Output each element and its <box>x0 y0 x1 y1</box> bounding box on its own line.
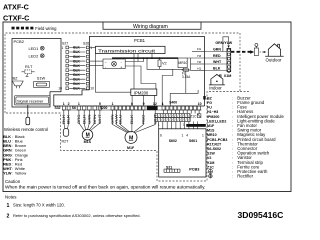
right legend <box>207 95 284 178</box>
svg-text:S6-S602: S6-S602 <box>207 147 221 151</box>
svg-text:RED: RED <box>142 114 146 124</box>
svg-text:6: 6 <box>131 102 133 106</box>
svg-text:WHT: WHT <box>213 60 222 64</box>
terminal strip X1M <box>227 48 231 71</box>
svg-text:When the main power is turned: When the main power is turned off and th… <box>5 185 206 191</box>
svg-text:Caution: Caution <box>5 179 21 184</box>
svg-text:BLU: BLU <box>118 113 122 124</box>
wire S26 to transmission circuit <box>89 47 96 49</box>
svg-text:GRN: GRN <box>88 114 92 124</box>
svg-text:BLK: BLK <box>73 68 80 72</box>
svg-text:1: 1 <box>202 134 204 138</box>
wireless remote control unit <box>26 117 30 125</box>
S27/S26 pin cells and BLK wires <box>66 46 89 91</box>
svg-text:6: 6 <box>160 134 162 138</box>
wire S27-S26 row <box>69 83 85 85</box>
wire S200 to M1F BLK <box>131 110 133 132</box>
wire fuse down <box>185 71 187 93</box>
svg-text:Rectifier: Rectifier <box>237 174 253 179</box>
S32 pin cell <box>62 106 65 110</box>
rectifier <box>103 59 125 69</box>
svg-text:BRN: BRN <box>3 144 11 148</box>
svg-text:Outdoor: Outdoor <box>266 58 282 63</box>
S400 pin cell <box>178 106 181 110</box>
wire H1 row <box>191 70 205 72</box>
fan motor M1F <box>125 131 137 143</box>
wire harness stub <box>158 122 160 129</box>
junction <box>146 57 148 59</box>
svg-text:S200: S200 <box>100 106 108 110</box>
wire harness stub <box>171 122 173 129</box>
svg-text::: : <box>232 142 233 146</box>
S27 pin cell <box>66 82 69 85</box>
svg-text:MR10: MR10 <box>178 61 187 65</box>
wire S27-S26 row <box>69 87 85 89</box>
svg-text:1: 1 <box>112 102 114 106</box>
wire S26 to rectifier ac1 <box>89 60 103 62</box>
svg-text:Signal receiver: Signal receiver <box>17 99 44 104</box>
wire S400 stub <box>190 110 192 114</box>
svg-text:BZ: BZ <box>13 75 19 80</box>
svg-text::: : <box>232 106 233 110</box>
wire harness stub <box>175 122 177 129</box>
wire S400 stub <box>178 110 180 114</box>
S6 pin cell <box>88 106 91 110</box>
svg-text:GRN: GRN <box>3 149 12 153</box>
wire transmission drop 2 <box>151 54 153 59</box>
svg-text:BLK: BLK <box>130 113 134 124</box>
wire harness stub <box>197 122 199 129</box>
svg-text:Indoor: Indoor <box>209 86 222 91</box>
S6 pin cell <box>83 106 86 110</box>
S27 pin cell <box>66 55 69 58</box>
wire S400 stub <box>163 110 165 114</box>
svg-text:Notes: Notes <box>5 194 17 199</box>
svg-text:R1T,R2T: R1T,R2T <box>207 142 222 146</box>
S200 pin cell <box>134 106 137 110</box>
wire S27-S26 row <box>69 51 85 53</box>
S6 pin cell <box>98 106 101 110</box>
svg-text:1: 1 <box>182 134 184 138</box>
wire S32-2 to R2T <box>68 110 69 129</box>
S200 pins 10-12 block <box>147 106 158 110</box>
svg-text:R2T: R2T <box>62 139 70 143</box>
svg-text::: : <box>232 129 233 133</box>
wire S400 stub <box>194 110 196 114</box>
S27 pin cell <box>66 46 69 49</box>
S200 pin cell <box>130 106 133 110</box>
svg-text::: : <box>232 170 233 174</box>
junction blob <box>203 96 205 100</box>
S27 pin cell <box>66 69 69 72</box>
svg-text:10: 10 <box>198 102 202 106</box>
S26 pin cell <box>86 64 89 67</box>
wire S200 to M1F BLU <box>120 110 130 132</box>
field wiring legend blocks <box>12 27 34 30</box>
varistor V2 <box>158 60 161 67</box>
svg-text:2: 2 <box>7 214 10 220</box>
wire S200 to M1F GRN <box>113 110 127 132</box>
svg-text:S6: S6 <box>72 106 76 110</box>
S200 pin cell <box>115 106 118 110</box>
wire transmission to IPM200 left <box>95 54 130 93</box>
svg-text:WHT: WHT <box>98 114 102 124</box>
PCB3 block <box>155 110 206 177</box>
svg-text:GRN/YLW: GRN/YLW <box>215 41 232 45</box>
S400 pin cell <box>194 106 197 110</box>
S26 pin cell <box>86 55 89 58</box>
svg-text:1: 1 <box>78 102 80 106</box>
svg-text::: : <box>12 172 13 176</box>
svg-text:PNK: PNK <box>3 158 11 162</box>
svg-text:V2: V2 <box>207 156 211 160</box>
wire rectifier to IPM200 <box>125 66 156 89</box>
protective earth symbol <box>208 169 212 173</box>
wire S400 stub <box>166 110 168 114</box>
wire harness stub <box>184 122 186 129</box>
svg-text:BLK: BLK <box>73 87 80 91</box>
svg-text:Refer to purchasing specificat: Refer to purchasing specification AS3030… <box>13 213 141 218</box>
svg-text:LED1: LED1 <box>29 46 39 51</box>
svg-text:FG: FG <box>207 101 212 105</box>
connector strip top edge <box>54 105 205 107</box>
svg-text::: : <box>12 167 13 171</box>
svg-text:~: ~ <box>105 61 107 65</box>
svg-text:Wiring diagram: Wiring diagram <box>133 24 168 30</box>
S200 pin cell <box>127 106 130 110</box>
svg-text:Size: length 70 X width 120.: Size: length 70 X width 120. <box>13 202 65 207</box>
S27 pin cell <box>66 51 69 54</box>
svg-text:BLK: BLK <box>73 46 80 50</box>
svg-text:S26: S26 <box>83 42 89 46</box>
S400 pin cell <box>186 106 189 110</box>
svg-text:RED: RED <box>3 163 11 167</box>
dashed boundary extension <box>240 92 249 94</box>
S26 pin cell <box>86 82 89 85</box>
signal receiver box <box>15 96 51 105</box>
svg-text:BLK: BLK <box>73 82 80 86</box>
svg-text:1: 1 <box>90 46 92 50</box>
S400 pin cell <box>190 106 193 110</box>
internal wires <box>89 47 206 106</box>
rectifier symbol <box>209 174 213 178</box>
svg-text:1: 1 <box>62 46 64 50</box>
outdoor terminal lug <box>255 43 258 46</box>
wire S27-S26 row <box>69 78 85 80</box>
wire S27-S26 row <box>69 56 85 58</box>
svg-text:3D095416C: 3D095416C <box>238 210 284 220</box>
svg-text:BLK: BLK <box>67 113 71 124</box>
svg-text:X1M: X1M <box>224 74 232 78</box>
dashed arrow to outdoor <box>260 51 265 53</box>
S200 pin cell <box>142 106 145 110</box>
wire S6 to M1S GRN <box>88 110 90 130</box>
svg-text:M1S: M1S <box>207 129 215 133</box>
wire S27-S26 row <box>69 69 85 71</box>
svg-text::: : <box>12 153 13 157</box>
S400 pin cell <box>182 106 185 110</box>
svg-text:PCB1: PCB1 <box>134 38 146 43</box>
outer frame <box>3 22 291 192</box>
harness H1-H3 strip <box>155 114 190 118</box>
svg-text:YLW: YLW <box>3 172 12 176</box>
svg-text:V2: V2 <box>162 62 167 66</box>
S400 pin cell <box>198 106 201 110</box>
svg-text:MR10: MR10 <box>207 133 217 137</box>
svg-text:H1~H3: H1~H3 <box>207 110 218 114</box>
earth jumper arrowhead <box>228 45 230 48</box>
svg-text:BRN: BRN <box>93 114 97 124</box>
S26 pin cell <box>86 73 89 76</box>
wire GRN to X1M <box>205 51 227 53</box>
svg-text:-: - <box>121 61 122 65</box>
transmission circuit box <box>96 46 166 53</box>
svg-text:10: 10 <box>90 86 94 90</box>
wire S26 to rectifier ac2 <box>89 65 103 67</box>
svg-text:BZ: BZ <box>207 96 213 100</box>
svg-text:S1W: S1W <box>207 152 215 156</box>
svg-text:LED2: LED2 <box>29 54 39 59</box>
wiring diagram title box <box>103 22 201 29</box>
fuse FU <box>182 69 190 71</box>
wire transmission to IPM200 <box>133 54 135 90</box>
svg-text:IPM200: IPM200 <box>207 115 219 119</box>
svg-text:S32: S32 <box>55 106 61 110</box>
junction <box>151 57 153 59</box>
svg-text:S602: S602 <box>169 139 177 143</box>
PCB1 outline <box>89 37 204 107</box>
svg-text:S1W: S1W <box>37 75 46 80</box>
svg-text:Yellow: Yellow <box>15 171 27 176</box>
svg-text:BLK: BLK <box>73 73 80 77</box>
svg-text::: : <box>232 147 233 151</box>
svg-text:BLK: BLK <box>73 55 80 59</box>
svg-text:9: 9 <box>143 102 145 106</box>
wire branch right <box>170 90 198 93</box>
bottom components <box>62 110 158 150</box>
svg-text:BLK: BLK <box>62 113 66 124</box>
svg-text:M1F: M1F <box>127 146 135 150</box>
swing motor M1S <box>82 130 93 141</box>
wire RED to X1M <box>205 57 227 59</box>
svg-text::: : <box>232 110 233 114</box>
svg-text::: : <box>232 124 233 128</box>
junction <box>143 57 145 59</box>
connector S21 strip <box>164 169 180 172</box>
color legend <box>3 134 29 176</box>
wire harness stub <box>179 122 181 129</box>
wire harness stub <box>166 122 168 129</box>
wire branch down <box>169 93 171 106</box>
svg-text:-: - <box>105 65 106 69</box>
svg-text:BLK: BLK <box>213 67 221 71</box>
svg-text:3.15A: 3.15A <box>182 75 191 79</box>
svg-text:BLK: BLK <box>73 59 80 63</box>
junction <box>159 57 161 59</box>
svg-text:12: 12 <box>153 102 157 106</box>
X1M terminal area <box>205 37 284 91</box>
svg-text::: : <box>232 165 233 169</box>
svg-text::: : <box>232 161 233 165</box>
wire S27-S26 row <box>69 60 85 62</box>
field wiring to outdoor <box>231 51 251 53</box>
svg-text:BLK: BLK <box>3 135 11 139</box>
svg-text:H1: H1 <box>197 67 201 71</box>
wire right link <box>190 58 192 71</box>
svg-text:10: 10 <box>58 86 62 90</box>
S400 pin cell <box>166 106 169 110</box>
wire S200 to M1F YLW <box>116 110 128 132</box>
wire MR10 to fuse <box>183 68 185 69</box>
svg-text::: : <box>12 163 13 167</box>
svg-text:ORG: ORG <box>3 153 12 157</box>
svg-text:Z1C: Z1C <box>207 165 214 169</box>
svg-text:PCB1-PCB3: PCB1-PCB3 <box>207 138 227 142</box>
svg-text:R1T: R1T <box>25 64 33 69</box>
S27 pin cell <box>66 78 69 81</box>
svg-text:ORG: ORG <box>77 114 81 124</box>
S400 pin cell <box>162 106 165 110</box>
S27 pin cell <box>66 87 69 90</box>
connector strip bottom edge <box>62 109 202 111</box>
svg-text:RED: RED <box>213 54 221 58</box>
S26 pin cell <box>86 69 89 72</box>
S200 pin cell <box>123 106 126 110</box>
svg-text:CTXF-C: CTXF-C <box>3 13 29 22</box>
wire harness stub <box>188 122 190 129</box>
wire varistor V2 taps <box>159 58 161 69</box>
wire S6 to M1S WHT <box>91 110 100 130</box>
svg-text:FG: FG <box>197 47 202 51</box>
IPM200 module <box>131 89 157 95</box>
svg-text::: : <box>232 119 233 123</box>
svg-text:M1S: M1S <box>84 140 92 144</box>
wire S32-1 to R2T <box>64 110 65 129</box>
S32 pin cell <box>67 106 70 110</box>
svg-text:BLK: BLK <box>73 64 80 68</box>
svg-text:BLK: BLK <box>73 77 80 81</box>
wire rectifier dc+ <box>125 58 143 61</box>
svg-text:S601: S601 <box>189 139 197 143</box>
svg-text::: : <box>12 140 13 144</box>
svg-text::: : <box>232 133 233 137</box>
wire S400 stub <box>198 110 200 114</box>
S200 pin cell <box>111 106 114 110</box>
S27 pin cell <box>66 60 69 63</box>
earth jumper wire <box>223 37 229 52</box>
S26 pin cell <box>86 46 89 49</box>
svg-text:GRN: GRN <box>213 48 221 52</box>
wire WHT to X1M <box>205 63 227 65</box>
svg-text:4: 4 <box>186 134 188 138</box>
S26 pin cell <box>86 51 89 54</box>
S200 pin cell <box>119 106 122 110</box>
svg-text:Wireless remote control: Wireless remote control <box>4 127 48 132</box>
S26 pin cell <box>86 78 89 81</box>
wire S27-S26 row <box>69 74 85 76</box>
thermistor R2T <box>63 129 68 137</box>
wire transmission drop 1 <box>137 54 139 59</box>
svg-text::: : <box>232 152 233 156</box>
wire S200 to M1F RED <box>134 110 144 132</box>
svg-text:IPM200: IPM200 <box>134 90 149 95</box>
harness H1-H3 strip <box>155 118 190 122</box>
svg-text:1: 1 <box>162 102 164 106</box>
svg-text:BLK: BLK <box>82 113 86 124</box>
svg-text:Z1C: Z1C <box>190 115 197 119</box>
wire harness stub <box>162 122 164 129</box>
outdoor house icon <box>265 44 283 57</box>
indoor unit dashed boundary <box>5 33 240 181</box>
svg-text:1: 1 <box>63 102 65 106</box>
svg-text:X1M: X1M <box>207 161 214 165</box>
svg-text:2: 2 <box>68 102 70 106</box>
svg-text:Transmission circuit: Transmission circuit <box>98 48 156 54</box>
wire S400 stub <box>182 110 184 114</box>
wire S400 stub <box>186 110 188 114</box>
wire FG row <box>192 51 205 53</box>
S6 pin cell <box>93 106 96 110</box>
wire S27-S26 row <box>69 65 85 67</box>
wire IPM200 out W <box>154 95 156 106</box>
svg-text:BLK: BLK <box>73 50 80 54</box>
wire rail to connector strip <box>162 69 173 106</box>
svg-text:H2: H2 <box>197 60 201 64</box>
wire S400 stub <box>170 110 172 114</box>
svg-text:S400: S400 <box>169 100 177 104</box>
svg-text:BLU: BLU <box>3 140 11 144</box>
wire S6 to M1S BRN <box>89 110 94 130</box>
S26 pin cell <box>86 87 89 90</box>
svg-text::: : <box>232 115 233 119</box>
svg-text:PCB3: PCB3 <box>189 167 199 171</box>
svg-text::: : <box>12 144 13 148</box>
wire IPM200 out U <box>131 95 133 106</box>
svg-text:+: + <box>120 66 122 70</box>
junction <box>137 57 139 59</box>
wire H3 row <box>187 57 204 59</box>
wire S200 to M1F WHT <box>135 110 155 132</box>
S200 pin cell <box>138 106 141 110</box>
S27 pin cell <box>66 73 69 76</box>
S26 pin cell <box>86 60 89 63</box>
wire BLK to X1M <box>205 70 227 72</box>
field wiring arrowhead <box>250 50 254 54</box>
wire S6 to M1S ORG <box>79 110 84 130</box>
svg-text:1: 1 <box>7 203 10 209</box>
PCB1 bottom notch <box>54 90 90 106</box>
svg-text::: : <box>12 149 13 153</box>
svg-text::: : <box>232 96 233 100</box>
svg-text::: : <box>12 135 13 139</box>
svg-text:FU: FU <box>207 106 212 110</box>
wire H2 row <box>191 63 205 65</box>
wire S6 to M1S BLK <box>84 110 85 130</box>
wire harness stub <box>192 122 194 129</box>
PCB2 outline <box>12 39 61 108</box>
wire S400 stub <box>174 110 176 114</box>
wire lower rail <box>147 58 184 69</box>
svg-text:5: 5 <box>99 102 101 106</box>
svg-text::: : <box>12 158 13 162</box>
svg-text:LED1,LED2: LED1,LED2 <box>207 119 226 123</box>
wire S27-S26 row <box>69 47 85 49</box>
svg-text::: : <box>232 175 233 179</box>
PCB3 outline <box>159 129 206 177</box>
S6 pin cell <box>77 106 80 110</box>
connector S601 body <box>186 124 206 127</box>
S400 pin cell <box>170 106 173 110</box>
